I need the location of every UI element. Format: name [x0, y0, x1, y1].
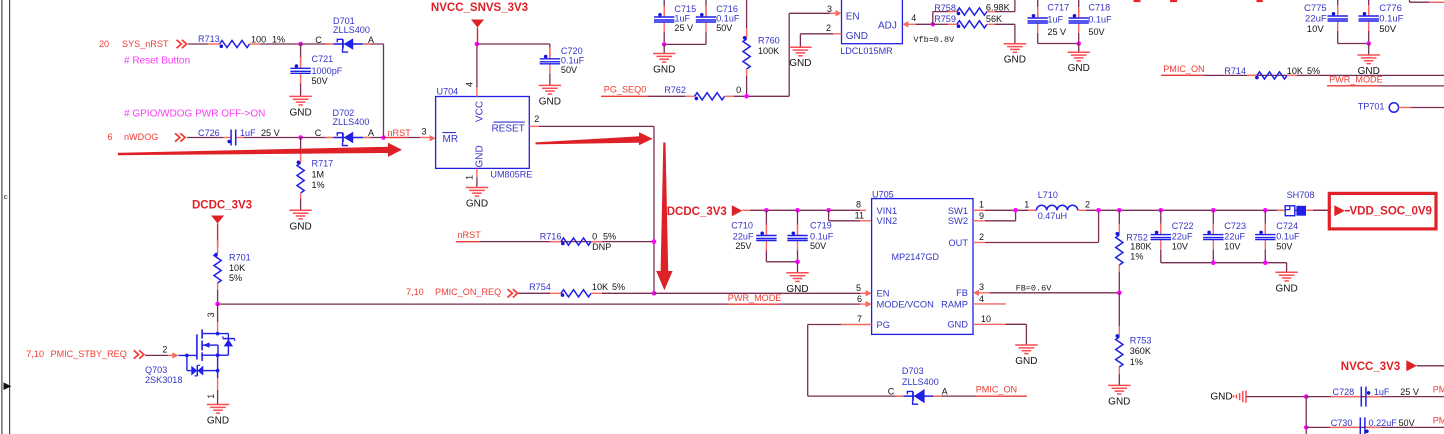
svg-text:MP2147GD: MP2147GD	[892, 252, 940, 262]
svg-text:5%: 5%	[612, 282, 625, 292]
svg-text:# Reset Button: # Reset Button	[124, 56, 190, 67]
svg-text:PG: PG	[877, 320, 890, 330]
svg-text:1%: 1%	[272, 35, 285, 45]
svg-text:0: 0	[592, 232, 597, 242]
svg-text:4: 4	[979, 294, 984, 304]
svg-text:C: C	[315, 128, 322, 138]
svg-text:GND: GND	[786, 284, 808, 295]
svg-text:DCDC_3V3: DCDC_3V3	[667, 206, 727, 218]
svg-text:20: 20	[99, 39, 109, 49]
svg-text:NVCC_3V3: NVCC_3V3	[1341, 361, 1400, 373]
svg-text:1: 1	[1024, 200, 1029, 210]
svg-text:A: A	[368, 35, 375, 45]
svg-text:GND: GND	[289, 107, 311, 118]
svg-text:2: 2	[1085, 200, 1090, 210]
svg-text:1: 1	[979, 200, 984, 210]
svg-text:R753: R753	[1130, 336, 1152, 346]
svg-text:OUT: OUT	[948, 238, 968, 248]
svg-text:R717: R717	[312, 159, 334, 169]
svg-text:ADJ: ADJ	[878, 20, 897, 31]
svg-text:VIN1: VIN1	[877, 206, 898, 216]
svg-text:50V: 50V	[1399, 418, 1416, 428]
svg-text:GND: GND	[475, 145, 486, 167]
svg-text:50V: 50V	[1379, 24, 1397, 35]
svg-text:TP701: TP701	[1358, 102, 1385, 112]
svg-text:C717: C717	[1047, 2, 1069, 12]
svg-text:GND: GND	[539, 96, 561, 107]
svg-text:10K: 10K	[592, 282, 608, 292]
svg-text:1uF: 1uF	[240, 128, 256, 138]
svg-text:C726: C726	[198, 128, 220, 138]
svg-text:C728: C728	[1333, 387, 1355, 397]
svg-text:3: 3	[979, 282, 984, 292]
svg-text:VDD_SOC_0V9: VDD_SOC_0V9	[1350, 206, 1432, 218]
svg-text:10K: 10K	[229, 263, 245, 273]
svg-text:1uF: 1uF	[1374, 387, 1390, 397]
svg-text:GND: GND	[466, 199, 488, 210]
svg-text:SYS_nRST: SYS_nRST	[122, 39, 169, 49]
svg-text:3: 3	[421, 126, 426, 136]
svg-text:PG_SEQ0: PG_SEQ0	[604, 85, 646, 95]
svg-text:SH708: SH708	[1287, 190, 1315, 200]
svg-text:VIN2: VIN2	[877, 216, 898, 226]
svg-text:R713: R713	[198, 34, 220, 44]
svg-text:C724: C724	[1276, 221, 1298, 231]
svg-text:MR: MR	[443, 134, 459, 145]
svg-text:10V: 10V	[1307, 24, 1325, 35]
svg-text:C: C	[888, 387, 895, 397]
svg-text:C718: C718	[1088, 2, 1110, 12]
svg-text:RAMP: RAMP	[941, 299, 968, 309]
svg-text:DCDC_3V3: DCDC_3V3	[192, 200, 252, 212]
svg-text:1%: 1%	[1130, 252, 1143, 262]
svg-text:GND: GND	[653, 65, 675, 76]
svg-text:0.1uF: 0.1uF	[810, 231, 834, 241]
svg-text:R754: R754	[529, 282, 551, 292]
svg-text:25 V: 25 V	[261, 128, 281, 138]
svg-text:GND: GND	[289, 221, 311, 232]
svg-text:FB=0.6V: FB=0.6V	[1016, 284, 1053, 294]
svg-text:nWDOG: nWDOG	[124, 132, 158, 142]
svg-text:50V: 50V	[1276, 241, 1293, 251]
svg-text:PM: PM	[1433, 385, 1444, 395]
svg-text:6.98K: 6.98K	[986, 3, 1010, 13]
svg-text:5: 5	[856, 283, 861, 293]
svg-text:50V: 50V	[716, 23, 733, 33]
svg-text:GND: GND	[1275, 283, 1297, 294]
svg-text:C710: C710	[731, 221, 753, 231]
svg-text:2SK3018: 2SK3018	[145, 375, 182, 385]
svg-text:3: 3	[206, 312, 216, 317]
svg-text:GND: GND	[789, 58, 811, 69]
svg-text:DNP: DNP	[592, 242, 611, 252]
svg-text:22uF: 22uF	[1172, 232, 1193, 242]
svg-text:C730: C730	[1331, 418, 1353, 428]
svg-text:GND: GND	[1210, 392, 1232, 403]
svg-text:C: C	[315, 35, 322, 45]
svg-text:EN: EN	[877, 289, 890, 299]
svg-text:10V: 10V	[1224, 241, 1241, 251]
svg-text:10: 10	[981, 314, 991, 324]
svg-text:# GPIO/WDOG PWR OFF->ON: # GPIO/WDOG PWR OFF->ON	[124, 109, 265, 120]
svg-text:Q703: Q703	[145, 365, 167, 375]
svg-text:Vfb=0.8V: Vfb=0.8V	[913, 35, 955, 45]
svg-text:1: 1	[465, 175, 475, 180]
svg-text:100K: 100K	[758, 46, 779, 56]
svg-text:22uF: 22uF	[1224, 232, 1245, 242]
svg-text:C720: C720	[561, 46, 583, 56]
svg-text:2: 2	[826, 23, 831, 33]
svg-text:LDCL015MR: LDCL015MR	[840, 46, 893, 56]
svg-text:NVCC_SNVS_3V3: NVCC_SNVS_3V3	[431, 2, 528, 14]
svg-text:R716: R716	[540, 232, 562, 242]
svg-text:L710: L710	[1038, 190, 1058, 200]
svg-text:A: A	[368, 128, 375, 138]
svg-text:GND: GND	[1015, 356, 1037, 367]
svg-text:50V: 50V	[1088, 27, 1105, 37]
svg-text:50V: 50V	[312, 76, 329, 86]
svg-text:0.1uF: 0.1uF	[1276, 232, 1300, 242]
svg-text:5%: 5%	[603, 232, 616, 242]
svg-text:50V: 50V	[810, 241, 827, 251]
svg-text:50V: 50V	[561, 65, 578, 75]
svg-text:0: 0	[736, 85, 741, 95]
svg-text:PMIC_ON: PMIC_ON	[976, 385, 1017, 395]
svg-text:GND: GND	[207, 416, 229, 427]
svg-text:10V: 10V	[1172, 241, 1189, 251]
svg-text:5%: 5%	[229, 273, 242, 283]
svg-text:7,10: 7,10	[26, 349, 44, 359]
svg-text:0.1uF: 0.1uF	[1088, 15, 1112, 25]
svg-text:25V: 25V	[735, 241, 752, 251]
svg-text:100: 100	[251, 35, 266, 45]
svg-text:D703: D703	[902, 366, 924, 376]
svg-text:3: 3	[827, 4, 832, 14]
svg-text:R701: R701	[229, 253, 251, 263]
svg-text:360K: 360K	[1130, 346, 1151, 356]
svg-text:GND: GND	[1108, 396, 1130, 407]
svg-text:nRST: nRST	[388, 128, 412, 138]
svg-text:R759: R759	[934, 14, 956, 24]
svg-text:R760: R760	[758, 36, 780, 46]
svg-text:22uF: 22uF	[1305, 13, 1327, 24]
svg-text:ZLLS400: ZLLS400	[333, 117, 370, 127]
svg-text:25 V: 25 V	[1047, 27, 1067, 37]
svg-text:nRST: nRST	[458, 230, 482, 240]
svg-text:C723: C723	[1224, 221, 1246, 231]
svg-text:C721: C721	[312, 54, 334, 64]
svg-text:R714: R714	[1224, 66, 1246, 76]
svg-text:4: 4	[465, 82, 475, 87]
svg-text:0.1uF: 0.1uF	[1379, 13, 1403, 24]
svg-text:SW1: SW1	[948, 206, 968, 216]
svg-text:MODE/VCON: MODE/VCON	[877, 300, 934, 310]
svg-text:U704: U704	[437, 86, 459, 96]
svg-text:PWR_MODE: PWR_MODE	[728, 293, 782, 303]
svg-text:PMIC_ON_REQ: PMIC_ON_REQ	[435, 287, 501, 297]
svg-text:25 V: 25 V	[1400, 387, 1420, 397]
svg-text:6: 6	[857, 294, 862, 304]
svg-text:PMIC_ON: PMIC_ON	[1163, 64, 1204, 74]
svg-text:0.22uF: 0.22uF	[1369, 418, 1398, 428]
svg-text:7: 7	[857, 314, 862, 324]
svg-text:2: 2	[534, 114, 539, 124]
svg-text:0.47uH: 0.47uH	[1038, 211, 1067, 221]
svg-text:8: 8	[856, 200, 861, 210]
svg-text:7,10: 7,10	[406, 287, 424, 297]
svg-text:6: 6	[107, 132, 112, 142]
svg-text:GND: GND	[846, 31, 868, 42]
svg-text:180K: 180K	[1130, 242, 1151, 252]
svg-text:9: 9	[979, 211, 984, 221]
svg-text:C775: C775	[1304, 3, 1327, 14]
svg-text:5%: 5%	[1307, 66, 1320, 76]
svg-text:1M: 1M	[312, 170, 325, 180]
svg-text:PWR_MODE: PWR_MODE	[1329, 75, 1383, 85]
svg-text:A: A	[942, 387, 949, 397]
svg-text:1%: 1%	[312, 180, 325, 190]
svg-text:1000pF: 1000pF	[312, 66, 343, 76]
svg-text:4: 4	[911, 13, 916, 23]
svg-text:2: 2	[979, 232, 984, 242]
svg-text:ZLLS400: ZLLS400	[902, 377, 939, 387]
svg-text:1%: 1%	[1130, 357, 1143, 367]
svg-text:C722: C722	[1172, 221, 1194, 231]
svg-text:FB: FB	[956, 288, 968, 298]
svg-text:11: 11	[855, 211, 864, 221]
svg-text:c: c	[4, 192, 8, 201]
svg-text:C715: C715	[674, 4, 696, 14]
svg-text:VCC: VCC	[475, 101, 486, 122]
svg-text:22uF: 22uF	[733, 231, 754, 241]
svg-text:ZLLS400: ZLLS400	[333, 25, 370, 35]
svg-text:C776: C776	[1379, 3, 1402, 14]
svg-text:UM805RE: UM805RE	[490, 170, 532, 180]
svg-text:56K: 56K	[986, 14, 1002, 24]
svg-text:2: 2	[162, 344, 167, 354]
svg-text:PM: PM	[1433, 416, 1444, 426]
svg-text:GND: GND	[947, 320, 968, 330]
svg-text:25 V: 25 V	[674, 23, 694, 33]
svg-text:1uF: 1uF	[1047, 15, 1063, 25]
svg-text:GND: GND	[1068, 63, 1090, 74]
svg-text:C719: C719	[810, 221, 832, 231]
svg-text:U705: U705	[872, 189, 894, 199]
svg-text:RESET: RESET	[491, 123, 524, 134]
svg-text:10K: 10K	[1287, 66, 1303, 76]
svg-text:R762: R762	[664, 85, 686, 95]
svg-text:GND: GND	[1004, 55, 1026, 66]
svg-text:1: 1	[206, 394, 216, 399]
svg-text:PMIC_STBY_REQ: PMIC_STBY_REQ	[51, 349, 127, 359]
svg-text:SW2: SW2	[948, 216, 968, 226]
svg-text:C716: C716	[716, 4, 738, 14]
svg-text:EN: EN	[846, 11, 860, 22]
